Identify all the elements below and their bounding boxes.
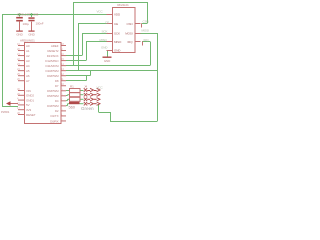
svg-text:D11/MOSI: D11/MOSI — [46, 64, 59, 68]
pin D4 — [61, 100, 67, 102]
resistor R1 560 — [70, 89, 81, 93]
op-amp/IC U1 ARDUINO1 body — [25, 43, 62, 124]
capacitor C3 plates — [31, 14, 33, 17]
pin D13/SCK — [61, 55, 67, 57]
pin A2 — [18, 55, 24, 57]
pin D2 — [61, 110, 67, 112]
wire CSN stub link — [142, 23, 148, 25]
pin RESET2 — [61, 50, 67, 52]
svg-text:D10/PWM: D10/PWM — [46, 69, 60, 73]
svg-text:D9/PWM: D9/PWM — [47, 74, 59, 78]
svg-text:D3/PWM: D3/PWM — [47, 104, 59, 108]
pin 3V3 — [18, 109, 24, 111]
resistor R3 560 — [70, 97, 81, 101]
svg-text:D7: D7 — [55, 84, 59, 88]
pin RESET — [18, 114, 24, 116]
pin MISO (left) — [107, 41, 113, 43]
svg-text:GND: GND — [16, 32, 23, 36]
svg-text:RESET2: RESET2 — [47, 49, 59, 53]
svg-text:3V3: 3V3 — [26, 108, 31, 112]
wire D11 horizontal — [66, 65, 150, 67]
pin D11/MOSI — [61, 65, 67, 67]
svg-text:MOSI: MOSI — [142, 29, 150, 33]
svg-text:D8: D8 — [55, 79, 59, 83]
wire SCK horizontal — [82, 33, 107, 35]
svg-text:SCK: SCK — [114, 31, 120, 35]
wire D8 horizontal — [66, 80, 87, 82]
pin MOSI (right) — [135, 33, 141, 35]
wire CSN vertical mid — [73, 2, 75, 66]
wire D10 horizontal — [66, 70, 158, 72]
pin D7 — [61, 85, 67, 87]
wire MISO horizontal — [86, 41, 107, 43]
connector pin 3 — [84, 98, 87, 102]
svg-text:AREF: AREF — [51, 44, 59, 48]
pin A5 — [18, 70, 24, 72]
wire VCC left vertical — [2, 14, 4, 107]
wire D12 to MISO riser — [66, 60, 86, 62]
svg-text:SCK: SCK — [102, 29, 108, 33]
pin CE (left) — [107, 23, 113, 25]
svg-text:D1/TX: D1/TX — [50, 114, 58, 118]
svg-text:D13/SCK: D13/SCK — [47, 54, 59, 58]
svg-text:A6: A6 — [26, 74, 30, 78]
svg-text:D2: D2 — [55, 109, 59, 113]
pin VDD (left) — [107, 14, 113, 16]
wire CSN right vertical — [147, 2, 149, 24]
pin A1 — [18, 50, 24, 52]
pin A0 — [18, 45, 24, 47]
pin IRQ (right) — [135, 41, 141, 43]
capacitor C3 lead — [31, 22, 33, 31]
svg-text:VCC: VCC — [97, 9, 104, 13]
wire CE horizontal — [78, 23, 107, 25]
svg-text:C33: C33 — [33, 12, 39, 16]
svg-text:D0/RX: D0/RX — [50, 119, 58, 123]
junction dot C3 on VCC wire — [30, 13, 32, 15]
wire IRQ vertical to D11 — [150, 42, 152, 66]
wire CSN top horizontal — [73, 2, 147, 4]
svg-text:GND1: GND1 — [26, 98, 34, 102]
svg-text:100µ: 100µ — [23, 22, 30, 26]
svg-text:MOSI: MOSI — [125, 31, 133, 35]
junction dot C2 on VCC wire — [18, 13, 20, 15]
wire D8 riser — [86, 76, 88, 81]
svg-text:D12/MISO: D12/MISO — [45, 59, 59, 63]
pin GND1 — [18, 99, 24, 101]
svg-text:GND: GND — [101, 45, 108, 49]
svg-text:CPOL1C3: CPOL1C3 — [17, 12, 30, 16]
pin D6/PWM — [61, 90, 67, 92]
pin GND2 — [18, 94, 24, 96]
svg-text:J4: J4 — [84, 85, 87, 89]
wire D9 riser — [90, 71, 92, 76]
connector pin 1 — [84, 88, 87, 92]
pin 5V — [18, 104, 24, 106]
svg-text:560: 560 — [69, 105, 76, 110]
svg-text:RF24L01: RF24L01 — [117, 3, 129, 7]
svg-text:IRQ: IRQ — [127, 40, 133, 44]
pin A3 — [18, 60, 24, 62]
svg-text:VDD: VDD — [114, 12, 121, 16]
pin D0/RX — [61, 120, 67, 122]
wire MISO vertical to D12 — [86, 42, 88, 61]
wire D13 to SCK riser — [66, 55, 82, 57]
svg-text:A3: A3 — [26, 59, 30, 63]
pin D3/PWM — [61, 105, 67, 107]
connector pin 4 — [84, 102, 87, 106]
wire VCC top horizontal — [2, 14, 107, 16]
svg-text:D4: D4 — [55, 99, 59, 103]
svg-text:D5/PWM: D5/PWM — [47, 94, 59, 98]
supply symbol VCC arrow — [6, 101, 11, 105]
wire CE vertical to D10 — [78, 24, 80, 71]
pin IRQ hook — [142, 42, 144, 46]
pin AREF — [61, 45, 67, 47]
wire bottom path from connector pin4 — [98, 104, 100, 112]
svg-text:IRQ: IRQ — [144, 38, 150, 42]
svg-text:100nF: 100nF — [36, 22, 44, 26]
svg-text:GND2: GND2 — [26, 94, 34, 98]
svg-text:A4: A4 — [26, 64, 30, 68]
svg-text:A5: A5 — [26, 69, 30, 73]
pin GND (left) — [107, 50, 113, 52]
wire to resistor R2 — [66, 95, 68, 97]
wire VCC to 5V pin — [2, 106, 18, 108]
svg-text:CE: CE — [114, 22, 118, 26]
svg-text:RESET: RESET — [26, 113, 36, 117]
svg-text:5V: 5V — [26, 103, 30, 107]
svg-text:PWR1: PWR1 — [1, 110, 10, 114]
pin CSN (right) — [135, 23, 141, 25]
svg-text:A0: A0 — [26, 44, 30, 48]
wire MOSI horizontal — [141, 33, 158, 35]
wire to resistor R4 — [66, 105, 68, 107]
IC U2 RF24L01 body — [113, 8, 136, 53]
svg-text:CSN: CSN — [126, 22, 132, 26]
svg-text:VCC: VCC — [97, 85, 104, 89]
svg-text:MISO: MISO — [100, 38, 108, 42]
pin D8 — [61, 80, 67, 82]
pin D9/PWM — [61, 75, 67, 77]
pin VIN — [18, 90, 24, 92]
svg-text:A7: A7 — [26, 79, 30, 83]
pin SCK (left) — [107, 33, 113, 35]
svg-text:CE: CE — [105, 20, 109, 24]
wire IRQ horizontal — [142, 41, 150, 43]
pin CSN hook — [141, 24, 143, 28]
svg-text:GND: GND — [114, 48, 121, 52]
capacitor C2 (polarized) plates — [19, 14, 21, 17]
svg-text:A1: A1 — [26, 49, 30, 53]
pin A7 — [18, 80, 24, 82]
pin D10/PWM — [61, 70, 67, 72]
pin A4 — [18, 65, 24, 67]
pin A6 — [18, 75, 24, 77]
pin D5/PWM — [61, 95, 67, 97]
resistor R4 560 — [69, 102, 80, 104]
ground symbol GND below NRF — [108, 50, 112, 52]
connector pin 2 — [84, 93, 87, 97]
ground symbol GND for C3 — [28, 31, 34, 32]
svg-text:A2: A2 — [26, 54, 30, 58]
svg-text:Green: Green — [81, 106, 94, 111]
capacitor C2 lead — [19, 22, 21, 31]
svg-text:R1: R1 — [70, 84, 74, 88]
svg-text:GND: GND — [28, 32, 35, 36]
svg-text:ARDUINO1: ARDUINO1 — [20, 38, 35, 42]
wire to resistor R3 — [66, 100, 68, 102]
svg-text:D6/PWM: D6/PWM — [47, 89, 59, 93]
svg-text:VIN: VIN — [26, 89, 31, 93]
resistor R2 560 — [70, 93, 81, 97]
pin D1/TX — [61, 115, 67, 117]
wire MOSI right vertical — [157, 33, 159, 121]
svg-text:MISO: MISO — [114, 40, 122, 44]
wire NRF GND drop — [107, 50, 109, 57]
ground symbol GND for C2 — [16, 31, 23, 32]
svg-text:CSN: CSN — [143, 20, 149, 24]
wire to resistor R1 — [66, 90, 68, 92]
wire D9 horizontal — [66, 75, 91, 77]
svg-text:GND: GND — [104, 59, 111, 63]
pin D12/MISO — [61, 60, 67, 62]
wire SCK vertical to D13 — [82, 33, 84, 56]
